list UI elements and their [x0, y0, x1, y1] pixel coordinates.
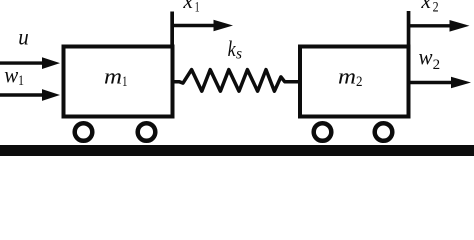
displacement arrow x2	[409, 20, 470, 32]
reference tick for x2	[407, 11, 411, 45]
svg-text:u: u	[18, 24, 29, 50]
mass m1 box	[64, 47, 173, 117]
disturbance arrow w2	[409, 77, 472, 89]
svg-text:w: w	[4, 62, 18, 88]
svg-text:1: 1	[195, 0, 200, 15]
wheel of m2 (right)	[375, 123, 393, 141]
svg-text:x: x	[182, 0, 193, 13]
label m2	[338, 64, 363, 90]
label w2	[419, 45, 441, 74]
svg-text:1: 1	[122, 74, 128, 90]
input arrow u	[0, 57, 60, 69]
svg-text:1: 1	[18, 73, 24, 89]
label x2	[420, 0, 438, 15]
mass m2 box	[300, 47, 409, 117]
displacement arrow x1	[172, 20, 233, 32]
svg-text:2: 2	[356, 74, 363, 90]
label w1	[4, 62, 24, 89]
svg-text:m: m	[104, 64, 122, 89]
disturbance arrow w1	[0, 89, 60, 101]
wheel of m1 (right)	[138, 123, 156, 141]
wheel of m2 (left)	[314, 123, 332, 141]
svg-text:s: s	[236, 46, 242, 63]
svg-text:2: 2	[433, 57, 441, 73]
svg-text:w: w	[419, 45, 433, 71]
svg-text:x: x	[420, 0, 431, 13]
svg-text:2: 2	[433, 0, 439, 15]
reference tick for x1	[170, 12, 174, 45]
wheel of m1 (left)	[75, 123, 93, 141]
label m1	[104, 64, 128, 90]
label x1	[182, 0, 199, 15]
spring ks between m1 and m2	[173, 70, 301, 92]
svg-text:m: m	[338, 64, 356, 89]
label ks	[228, 36, 242, 63]
ground	[0, 145, 474, 156]
